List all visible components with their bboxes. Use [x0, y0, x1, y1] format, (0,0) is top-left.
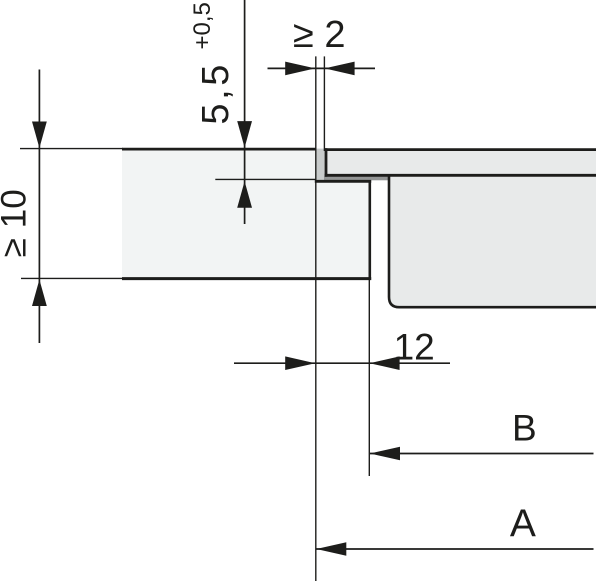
- dimension line B: [370, 453, 594, 455]
- worktop fill: [122, 148, 371, 280]
- construction line cutout edge: [368, 279, 370, 476]
- arrow >=10 up: [32, 280, 47, 307]
- arrow >=2 right: [325, 62, 355, 76]
- dimension line A: [316, 548, 593, 550]
- extension line ledge: [215, 178, 316, 180]
- svg-text:A: A: [510, 502, 536, 545]
- dimension line 12: [234, 362, 450, 364]
- arrow 5,5 down: [237, 121, 252, 148]
- worktop top edge: [122, 148, 317, 151]
- dimension line >=2: [268, 67, 376, 69]
- arrow B left: [370, 447, 400, 461]
- glass left edge: [325, 148, 328, 177]
- dimension line 5,5: [244, 0, 246, 224]
- dimension line >=10: [38, 70, 40, 344]
- glass panel fill: [325, 148, 596, 177]
- arrow 5,5 up: [237, 181, 252, 208]
- extension line top left: [20, 148, 123, 150]
- arrow A left: [316, 542, 346, 556]
- arrow >=10 down: [32, 122, 47, 149]
- worktop ledge edge: [315, 180, 371, 183]
- svg-text:≥ 2: ≥ 2: [293, 14, 346, 56]
- worktop cut edge: [368, 180, 371, 280]
- construction line rebate edge: [315, 56, 317, 581]
- construction line glass edge: [323, 56, 325, 151]
- arrow >=2 left: [285, 62, 315, 76]
- svg-text:5,5: 5,5: [195, 65, 237, 125]
- appliance body fill: [388, 176, 596, 309]
- appliance body outline: [389, 175, 596, 307]
- svg-text:B: B: [512, 408, 537, 449]
- arrow 12 right: [370, 356, 400, 370]
- joint gap fill: [317, 149, 325, 180]
- extension line bottom left: [21, 277, 123, 279]
- svg-text:≥ 10: ≥ 10: [0, 189, 33, 257]
- glass bottom edge: [325, 174, 596, 177]
- worktop bottom edge: [122, 277, 371, 280]
- seal strip: [324, 177, 389, 181]
- arrow 12 left: [285, 356, 315, 370]
- svg-text:12: 12: [394, 326, 435, 367]
- glass top edge: [325, 148, 596, 151]
- svg-text:+0,5: +0,5: [189, 2, 216, 49]
